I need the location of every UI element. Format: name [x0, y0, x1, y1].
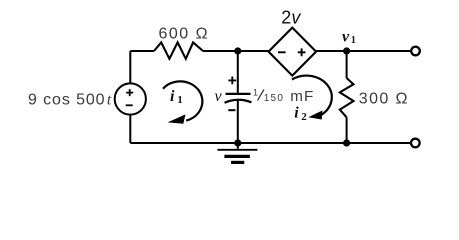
- wire: v1 to top terminal: [347, 50, 412, 52]
- fraction slash: [258, 90, 265, 101]
- plus sign inside diamond: [298, 48, 306, 56]
- svg-text:150: 150: [264, 93, 284, 104]
- node v1 dot: [343, 47, 350, 54]
- minus sign below capacitor: [228, 109, 235, 111]
- svg-text:300 Ω: 300 Ω: [359, 90, 409, 107]
- capacitor C1 curved bottom plate: [225, 100, 252, 103]
- dependent source U1 (diamond 2v): [269, 28, 317, 76]
- wire: bottom wire: [130, 142, 411, 144]
- minus sign in source: [126, 104, 133, 106]
- node: ground junction dot: [234, 139, 241, 146]
- wire: top wire right segment (diamond to v1): [316, 50, 347, 52]
- wire: capacitor branch top stub: [237, 51, 239, 93]
- wire: left rail bottom (source bottom to corner): [129, 115, 131, 143]
- resistor R 600 ohm: [154, 42, 203, 58]
- wire: top wire middle segment: [203, 50, 269, 52]
- mesh current arrow i1: [163, 81, 202, 120]
- capacitor C1 top plate: [226, 93, 251, 95]
- node: bottom right junction dot: [343, 139, 350, 146]
- terminal: top open circle: [411, 47, 420, 56]
- ground symbol: [237, 143, 239, 149]
- wire: left rail top (corner to source top): [129, 51, 131, 83]
- svg-text:1: 1: [351, 35, 356, 46]
- wire: resistor to bottom wire: [346, 117, 348, 143]
- svg-text:1: 1: [177, 94, 183, 106]
- svg-text:mF: mF: [290, 88, 314, 105]
- node: junction dot top of capacitor branch: [234, 47, 241, 54]
- svg-text:i: i: [294, 104, 299, 121]
- svg-text:2v: 2v: [281, 8, 301, 28]
- svg-text:600 Ω: 600 Ω: [158, 26, 209, 43]
- svg-text:9 cos 500t: 9 cos 500t: [28, 92, 112, 109]
- plus sign in source: [126, 89, 133, 96]
- wire: top wire left segment: [130, 50, 154, 52]
- plus sign above capacitor: [228, 77, 236, 85]
- source V1 9cos500t circle: [115, 83, 146, 114]
- terminal: bottom open circle: [411, 139, 420, 148]
- svg-text:v: v: [215, 88, 223, 105]
- svg-text:2: 2: [301, 111, 307, 123]
- svg-text:i: i: [170, 88, 175, 105]
- wire: right branch v1 to resistor: [346, 51, 348, 78]
- svg-text:v: v: [342, 28, 350, 45]
- mesh current arrow i2: [292, 76, 332, 115]
- resistor R 300 ohm: [340, 78, 354, 117]
- minus sign inside diamond: [278, 51, 286, 53]
- wire: capacitor branch bottom stub: [237, 101, 239, 144]
- svg-text:1: 1: [253, 88, 258, 98]
